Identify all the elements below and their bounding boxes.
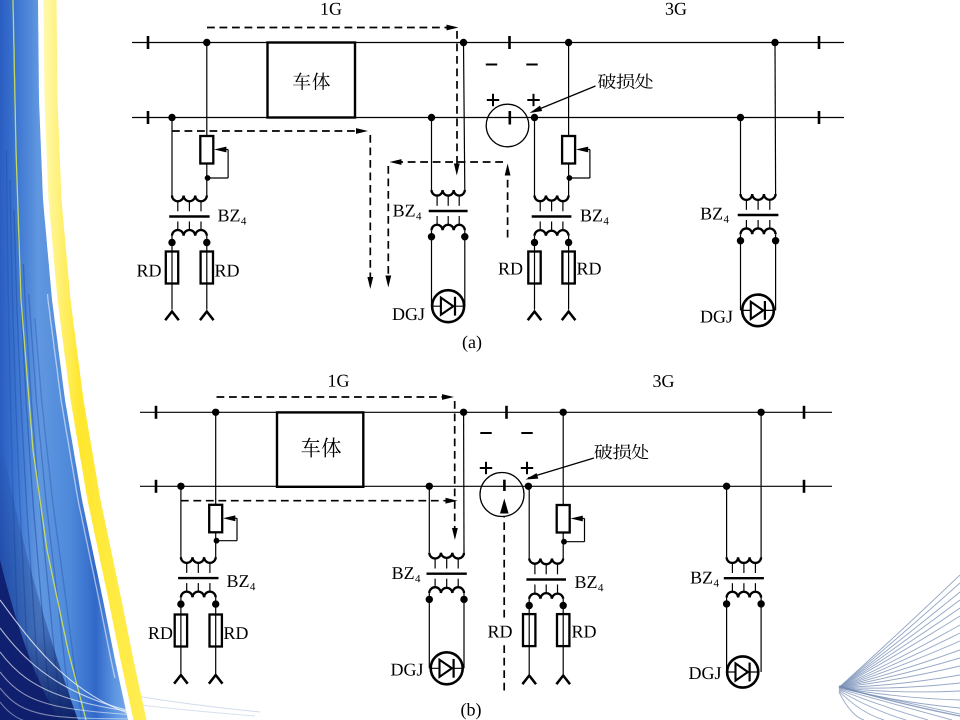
insulated joint left top (a): [147, 36, 150, 49]
label RD (b 1G feed right): [224, 627, 248, 639]
caption (b): [461, 703, 480, 719]
dashed current path 3 (b): up through damaged joint: [503, 643, 505, 691]
transformer BZ4 (b 3G recv) primary coil: [727, 557, 762, 563]
node secondary right (a 1G feed): [206, 236, 208, 243]
wire right (b 1G recv): [463, 412, 465, 552]
polarity minus right (a): [526, 64, 537, 66]
junction dot at R2a wiper tap: [567, 175, 573, 181]
terminal symbol (b 3G feed left): [522, 676, 536, 685]
decorative fan lines bottom right: [839, 575, 960, 688]
label BZ4 (b 3G recv): [691, 572, 712, 584]
label BZ4 (b 1G feed): [227, 575, 249, 587]
node: top rail to 3G receiver (a): [771, 39, 778, 46]
label RD (b 1G feed left): [148, 627, 172, 639]
caption (a): [463, 336, 481, 352]
potentiometer R1b body: [209, 505, 222, 533]
transformer BZ4 (b 1G feed) core: [178, 577, 218, 579]
label RD (b 3G feed left): [488, 626, 512, 638]
terminal symbol (b 1G feed left): [174, 675, 188, 684]
insulated joint left bottom (b): [155, 480, 158, 493]
fuse RD (a 1G feed left): [166, 252, 178, 284]
polarity minus left (a): [486, 64, 497, 66]
label 3G (section a): [666, 3, 687, 15]
insulated joint inside circle (a): [508, 111, 511, 125]
insulated joint right bottom (b): [803, 480, 806, 493]
wire left (a 1G recv): [431, 118, 433, 191]
transformer BZ4 (b 3G feed) secondary coil: [534, 585, 536, 594]
label BZ4 (a 3G feed): [581, 210, 603, 222]
fuse RD (b 1G feed left): [175, 615, 187, 647]
wires to DGJ (a 1G recv): [431, 237, 433, 307]
node: bottom rail to 3G receiver (a): [737, 114, 744, 121]
insulated joint right bottom (a): [818, 111, 821, 124]
wire right (b 1G feed): [215, 412, 217, 557]
dashed current path 1 (a): along 1G top: [207, 27, 448, 29]
label DGJ (a 1G): [393, 308, 425, 320]
label RD (a 1G feed left): [137, 265, 161, 277]
label BZ4 (a 1G recv): [393, 205, 414, 217]
transformer BZ4 (b 3G feed) primary coil: [529, 559, 563, 565]
insulated joint left bottom (a): [147, 111, 150, 124]
transformer BZ4 (a 1G recv) core: [429, 210, 468, 212]
insulated joint right top (a): [818, 36, 821, 49]
insulated joint mid top (b): [505, 406, 508, 419]
insulated joint left top (b): [155, 406, 158, 419]
car body label 车体 (b): [302, 438, 320, 458]
relay DGJ (b 1G) diode: [430, 667, 463, 669]
node: bottom rail to 3G feed (b): [525, 483, 532, 490]
wire to right fuse (a 1G feed): [206, 243, 208, 310]
transformer BZ4 (a 3G feed) secondary coil: [539, 222, 541, 231]
label RD (a 1G feed right): [215, 265, 239, 277]
potentiometer R2a body: [562, 136, 575, 164]
relay DGJ (a 1G) case: [432, 290, 464, 322]
node: top rail to 3G feed (b): [560, 409, 567, 416]
dashed current path 1 (b): along 1G top: [217, 396, 445, 398]
label RD (b 3G feed right): [572, 626, 596, 638]
nodes secondary (b 1G recv): [428, 593, 430, 599]
node: top rail to 1G feed (a): [203, 39, 210, 46]
fuse RD (a 1G feed right): [201, 252, 213, 284]
node: bottom rail to 3G feed (a): [531, 114, 538, 121]
wire right (a 3G feed): [568, 43, 570, 196]
label BZ4 (b 3G feed): [575, 576, 597, 588]
transformer BZ4 (b 1G feed) primary coil: [181, 557, 216, 563]
transformer BZ4 (a 3G feed) core: [532, 215, 572, 217]
terminal symbol (a 1G feed left): [165, 312, 179, 321]
label 1G (section b): [329, 375, 349, 387]
nodes secondary (b 3G recv): [726, 598, 728, 604]
leader arrow to damaged spot (a): [532, 86, 596, 112]
polarity plus right (a): [527, 99, 539, 101]
dashed current path 2 (a): along 1G bottom: [172, 130, 358, 132]
terminal symbol (a 3G feed right): [562, 312, 576, 321]
wire left (b 1G feed): [180, 486, 182, 557]
label BZ4 (a 1G feed): [218, 210, 240, 222]
node: bottom rail to 1G feed (b): [177, 483, 184, 490]
transformer BZ4 (b 3G recv) core: [724, 577, 764, 579]
node: bottom rail to 1G receiver (a): [428, 114, 435, 121]
insulated joint right top (b): [803, 406, 806, 419]
wire right (b 3G feed): [562, 412, 564, 558]
damaged insulated joint circle (b): [480, 473, 524, 517]
nodes secondary (a 3G feed): [534, 236, 536, 243]
relay DGJ (a 1G) diode: [432, 305, 465, 307]
top rail (a): [132, 42, 844, 44]
dashed current path 2 (b): along 1G bottom: [181, 500, 448, 502]
transformer BZ4 (a 1G feed) core: [169, 215, 209, 217]
transformer BZ4 (a 3G recv) core: [738, 214, 779, 216]
label 1G (section a): [322, 3, 342, 15]
polarity plus left (a): [487, 99, 499, 101]
transformer BZ4 (a 3G recv) primary coil: [741, 194, 776, 200]
node: top rail to 1G feed (b): [212, 409, 219, 416]
fuse RD (a 3G feed left): [528, 252, 540, 284]
label 破损处 (b): [594, 444, 612, 460]
terminal symbol (b 1G feed right): [209, 675, 223, 684]
fuse RD (b 1G feed right): [210, 615, 222, 647]
transformer BZ4 (b 1G recv) core: [427, 573, 467, 575]
junction dot at R1a wiper tap: [205, 175, 211, 181]
potentiometer R2b wiper arrow: [571, 516, 583, 522]
terminal symbol (a 1G feed right): [200, 312, 214, 321]
car body label 车体 (a): [293, 73, 311, 90]
insulated joint mid top (a): [508, 36, 511, 49]
car body box (b): [277, 412, 363, 486]
node: top rail to 1G receiver (a): [460, 39, 467, 46]
dashed current path 3 (a): from 3G feed: [507, 175, 509, 238]
wire right (a 1G recv): [464, 43, 465, 191]
label 破损处 (a): [598, 74, 616, 90]
polarity plus left (b): [480, 467, 492, 469]
label RD (a 3G feed left): [499, 263, 523, 275]
transformer BZ4 (a 1G recv) secondary coil: [436, 216, 438, 225]
junction dot at R2b wiper tap: [561, 539, 567, 545]
relay DGJ (b 3G) case: [727, 656, 758, 687]
insulated joint inside circle (b): [503, 480, 506, 491]
transformer BZ4 (b 1G recv) secondary coil: [434, 579, 436, 588]
wire left (b 3G recv): [726, 486, 728, 557]
node: bottom rail to 3G receiver (b): [723, 483, 730, 490]
transformer BZ4 (b 3G recv) secondary coil: [731, 583, 733, 592]
transformer BZ4 (a 1G feed) primary coil: [172, 196, 207, 202]
car body box (a): [268, 43, 356, 118]
transformer BZ4 (b 1G feed) secondary coil: [186, 583, 188, 592]
polarity minus left (b): [480, 432, 491, 434]
fuse RD (b 3G feed right): [557, 614, 569, 646]
relay DGJ (a 3G) diode: [742, 309, 775, 311]
node: bottom rail to 1G receiver (b): [426, 483, 433, 490]
relay DGJ (b 1G) case: [431, 652, 463, 684]
label DGJ (a 3G): [701, 311, 733, 323]
node secondary left (a 1G feed): [171, 236, 173, 243]
node secondary left (a 1G recv): [431, 230, 433, 236]
node: bottom rail to 1G feed (a): [168, 114, 175, 121]
wire right (b 3G recv): [760, 412, 762, 557]
label DGJ (b 1G): [391, 664, 423, 676]
transformer BZ4 (b 3G feed) core: [526, 578, 566, 580]
transformer BZ4 (b 1G recv) primary coil: [429, 553, 464, 559]
damaged insulated joint circle (a): [486, 104, 529, 147]
top rail (b): [140, 411, 832, 413]
wire left (b 3G feed): [528, 486, 530, 558]
nodes secondary (b 3G feed): [528, 599, 530, 606]
wire: bottom rail down to BZ4 (a 1G feed): [171, 118, 173, 196]
wire to left fuse (a 1G feed): [171, 243, 173, 310]
wire left (a 3G recv): [740, 118, 742, 195]
label RD (a 3G feed right): [577, 263, 601, 275]
transformer BZ4 (a 3G recv) secondary coil: [745, 220, 747, 229]
terminal symbol (a 3G feed left): [528, 312, 542, 321]
leader arrow to damaged spot (b): [528, 458, 594, 478]
wire: top rail down through pot (a 1G feed): [206, 43, 208, 196]
nodes secondary (b 1G feed): [180, 597, 182, 604]
fuse RD (b 3G feed left): [523, 614, 535, 646]
wire right (a 3G recv): [774, 43, 777, 195]
label DGJ (b 3G): [689, 667, 721, 679]
transformer BZ4 (a 1G recv) primary coil: [432, 190, 465, 196]
relay DGJ (a 3G) case: [742, 295, 774, 327]
potentiometer R2a wiper arrow: [576, 147, 588, 153]
potentiometer R1a body: [200, 136, 213, 164]
node: top rail to 3G receiver (b): [757, 409, 764, 416]
polarity plus right (b): [521, 467, 533, 469]
potentiometer R2b body: [557, 505, 570, 533]
label BZ4 (b 1G recv): [392, 567, 413, 579]
transformer BZ4 (a 3G feed) primary coil: [535, 196, 569, 202]
transformer BZ4 (a 1G feed) secondary coil: [177, 222, 179, 231]
junction dot at R1b wiper tap: [214, 538, 220, 544]
label BZ4 (a 3G recv): [701, 208, 722, 220]
node secondary right (a 1G recv): [464, 230, 466, 236]
wire left (b 1G recv): [428, 486, 430, 552]
potentiometer R1a wiper arrow: [214, 147, 226, 153]
label 3G (section b): [653, 375, 674, 387]
polarity minus right (b): [521, 432, 532, 434]
node: top rail to 3G feed (a): [565, 39, 572, 46]
terminal symbol (b 3G feed right): [556, 676, 570, 685]
bottom rail (a): [132, 117, 844, 119]
wire left (a 3G feed): [534, 118, 536, 196]
node: top rail to 1G receiver (b): [460, 409, 467, 416]
relay DGJ (b 3G) diode: [727, 671, 759, 673]
bottom rail (b): [140, 485, 832, 487]
nodes secondary (a 3G recv): [740, 234, 742, 240]
decorative left band: [0, 0, 128, 720]
potentiometer R1b wiper arrow: [223, 515, 235, 521]
fuse RD (a 3G feed right): [562, 252, 574, 284]
